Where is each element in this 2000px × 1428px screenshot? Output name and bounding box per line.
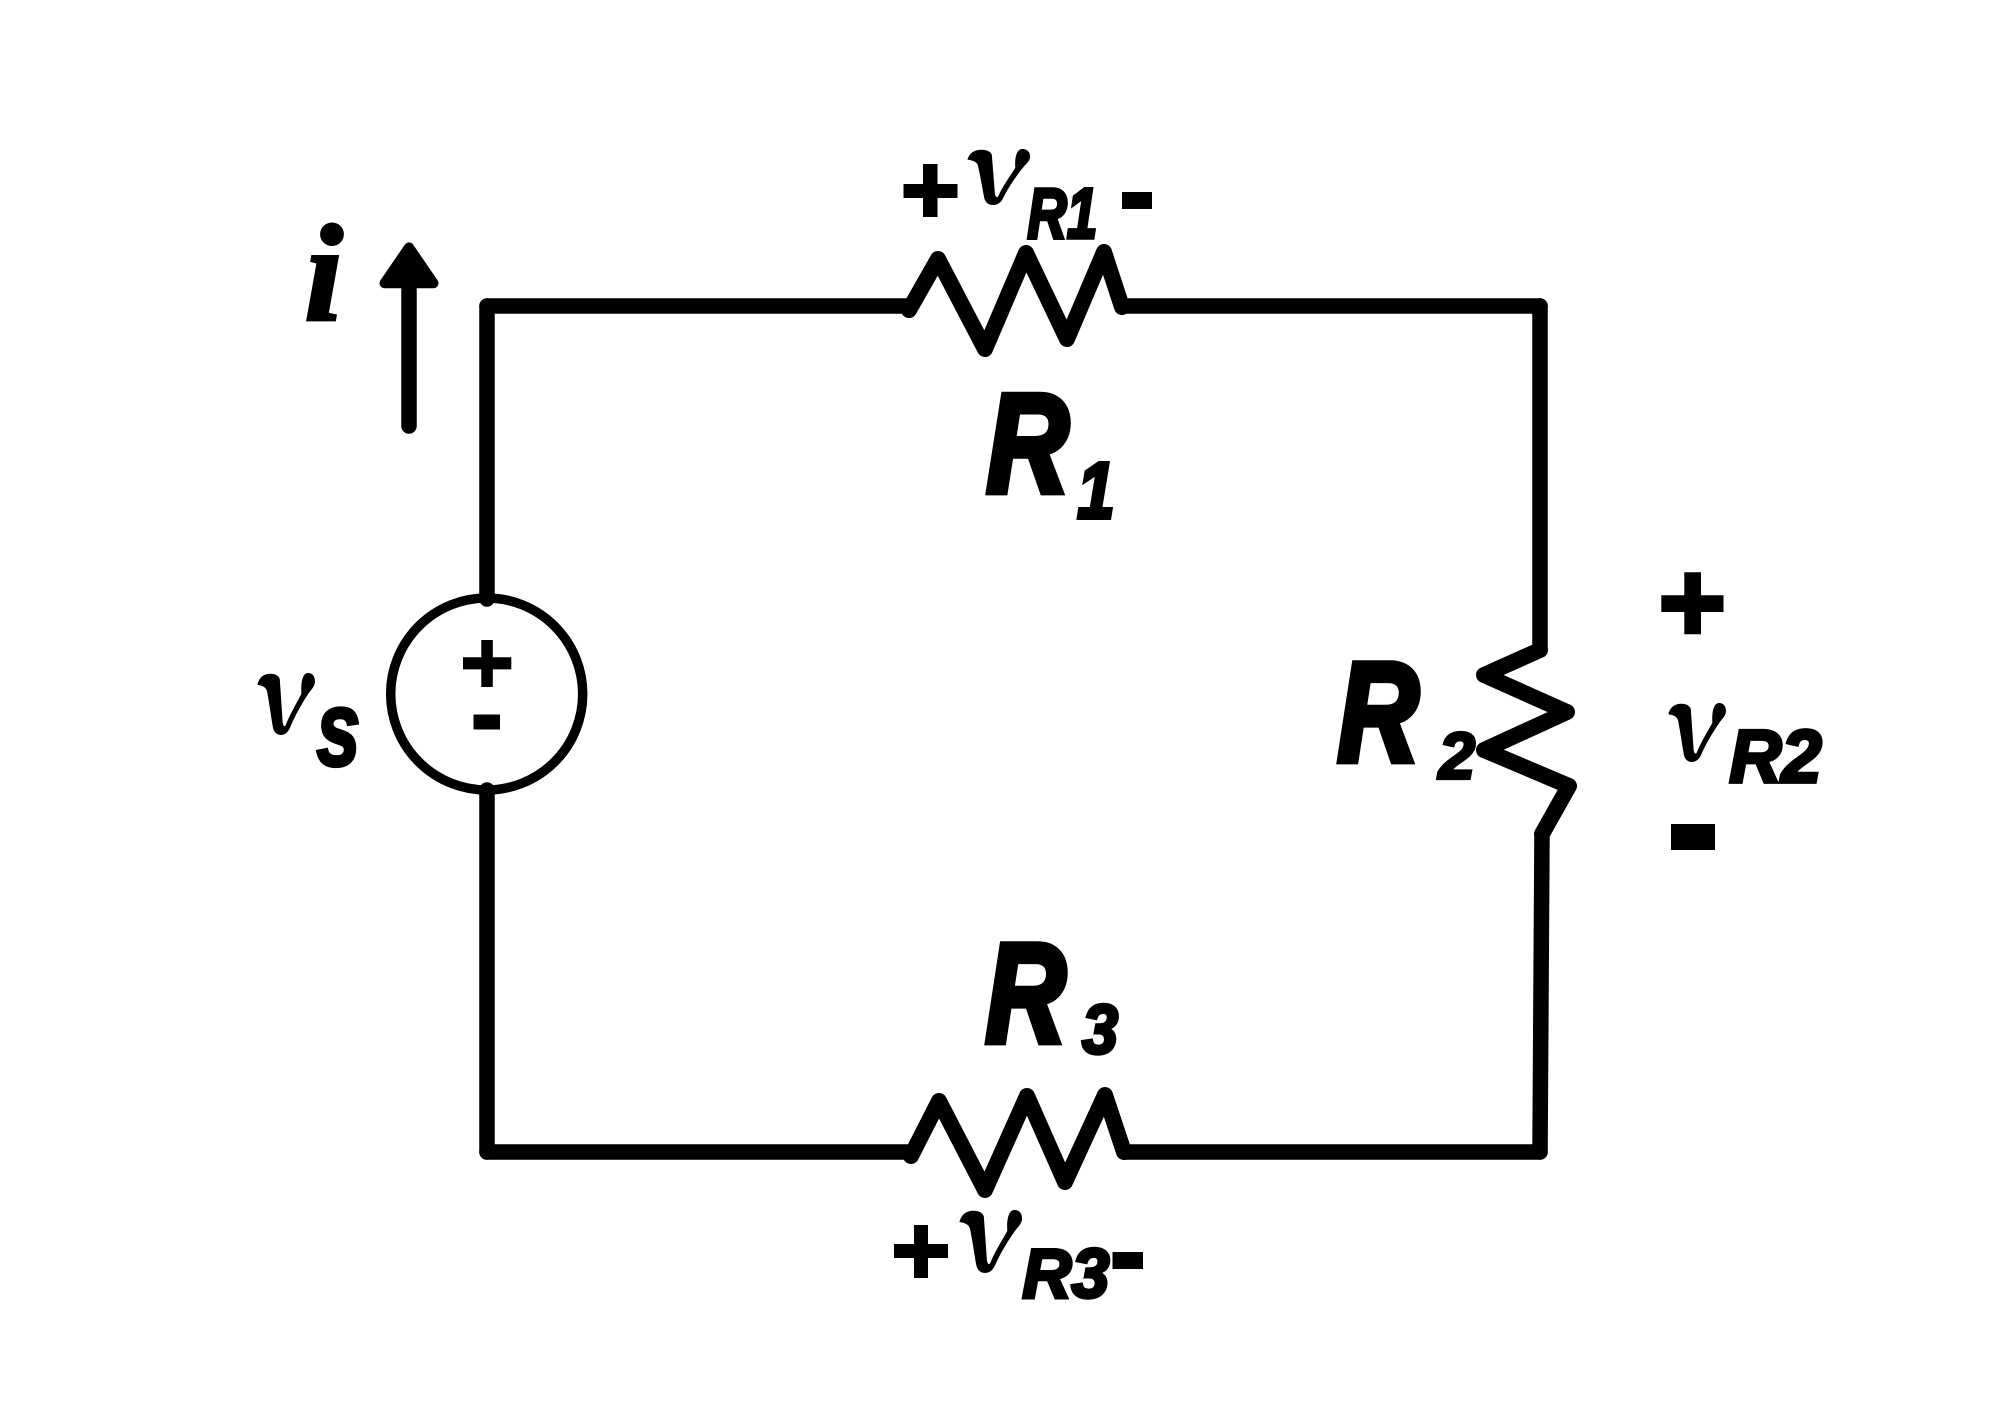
svg-text:s: s <box>316 669 360 788</box>
plus sign of vR1 <box>904 164 958 217</box>
minus sign of vR2 <box>1671 824 1715 850</box>
label vR1 : v <box>967 149 1030 205</box>
wire bottom left segment <box>487 1144 911 1160</box>
svg-text:R: R <box>987 366 1069 523</box>
wire left bottom (bottom-left corner up to source bottom) <box>479 790 495 1152</box>
svg-text:R1: R1 <box>1027 174 1097 254</box>
svg-text:R3: R3 <box>1022 1235 1109 1313</box>
label vR2 : v <box>1668 703 1726 762</box>
minus sign of vR3 <box>1113 1252 1144 1269</box>
resistor R1 <box>909 252 1122 349</box>
wire bottom right segment <box>1124 1144 1540 1160</box>
wire right lower <box>1540 834 1542 1152</box>
wire left top (source top to top-left corner) <box>479 306 495 599</box>
label vs : v <box>257 673 315 735</box>
svg-text:i: i <box>304 198 343 351</box>
svg-text:1: 1 <box>1077 446 1114 536</box>
current arrow i <box>385 247 434 426</box>
plus sign of vR2 <box>1661 572 1723 634</box>
resistor R3 <box>911 1095 1124 1190</box>
resistor R2 <box>1484 650 1569 834</box>
minus sign of vR1 <box>1122 192 1152 209</box>
svg-text:R: R <box>986 914 1066 1072</box>
wire right upper <box>1532 306 1548 650</box>
svg-text:2: 2 <box>1437 719 1475 792</box>
minus sign inside source <box>474 715 501 730</box>
label vR3 : v <box>959 1210 1022 1273</box>
wire top left segment <box>487 298 910 314</box>
svg-text:R: R <box>1338 635 1419 792</box>
plus sign inside source <box>463 640 511 687</box>
svg-text:R2: R2 <box>1729 715 1821 798</box>
plus sign of vR3 <box>894 1225 948 1278</box>
svg-text:3: 3 <box>1082 991 1118 1068</box>
voltage source VS circle <box>391 598 583 790</box>
wire top right segment <box>1127 298 1540 314</box>
